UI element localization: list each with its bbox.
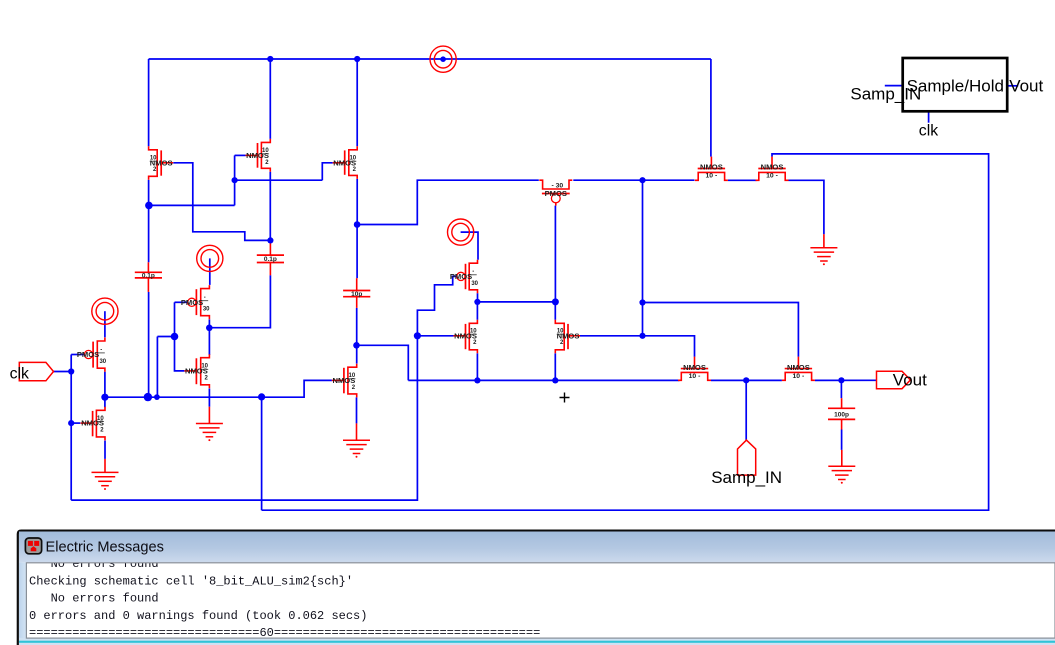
junction dot 5 (270.4,240.4) bbox=[267, 237, 273, 243]
wire M8 drain bbox=[476, 302, 478, 320]
svg-text:10: 10 bbox=[349, 373, 356, 379]
transistor P1H PMOS 30 bbox=[539, 180, 572, 205]
wire clkb vertical bbox=[261, 397, 263, 510]
wire SH out stub bbox=[1007, 85, 1018, 87]
power symbol VDD3 bbox=[448, 219, 474, 245]
transistor M1L NMOS 10/2 (inverter1 pull-down) bbox=[81, 407, 105, 441]
wire M3 source down bbox=[356, 179, 358, 225]
svg-text:30: 30 bbox=[203, 307, 210, 313]
junction dot 3 (148.9,205.4) bbox=[145, 202, 153, 210]
svg-text:30: 30 bbox=[99, 359, 106, 365]
wire M6 source bbox=[356, 397, 358, 423]
wire VDD rail drop to M4 gate bbox=[710, 59, 712, 157]
junction dot 14 (209.3,327.8) bbox=[206, 325, 213, 332]
wire M5 gate loop right bbox=[262, 154, 989, 510]
wire node E right bbox=[357, 345, 409, 380]
cursor crosshair bbox=[560, 393, 570, 403]
ground under C4 bbox=[828, 450, 855, 484]
wire Samp_IN drop bbox=[745, 380, 747, 440]
wire M9 source bbox=[554, 353, 556, 380]
svg-text:10 -: 10 - bbox=[793, 373, 805, 380]
capacitor C1 0.1p bbox=[135, 262, 162, 292]
junction dot 6 (357.1,224.5) bbox=[354, 221, 361, 228]
input pin clk bbox=[19, 362, 53, 380]
transistor M7 NMOS 10/2 (inverter2 pull-down) bbox=[184, 354, 209, 388]
junction dot 9 (104.9,397.2) bbox=[101, 394, 108, 401]
wire M1 gate bbox=[173, 163, 270, 241]
svg-text:NMOS: NMOS bbox=[787, 363, 810, 372]
svg-text:Vout: Vout bbox=[1009, 76, 1043, 95]
junction dot 1 (270.3,59) bbox=[267, 56, 273, 62]
svg-text:NMOS: NMOS bbox=[700, 163, 723, 172]
junction dot 2 (357.2,59) bbox=[354, 56, 360, 62]
wire to M3 gate bbox=[322, 163, 332, 180]
svg-text:-: - bbox=[472, 269, 474, 275]
capacitor C4 100p bbox=[828, 398, 855, 429]
svg-text:10: 10 bbox=[557, 329, 564, 335]
svg-text:Electric Messages: Electric Messages bbox=[46, 540, 164, 556]
svg-text:100p: 100p bbox=[834, 411, 849, 418]
wire VDD rail bbox=[149, 58, 711, 60]
junction dot 17 (477.4,301.9) bbox=[474, 299, 480, 305]
svg-text:10p: 10p bbox=[351, 291, 362, 298]
junction dot 24 (746.2,380.35) bbox=[743, 377, 749, 383]
svg-text:clk: clk bbox=[919, 122, 938, 139]
junction dot 10 (147.9,397.1) bbox=[144, 393, 152, 401]
wire C4 bottom bbox=[841, 430, 843, 450]
wire M5 to ground bbox=[789, 180, 824, 234]
svg-text:PMOS: PMOS bbox=[181, 298, 203, 307]
power symbol VDD1 bbox=[92, 298, 118, 324]
svg-text:10: 10 bbox=[201, 364, 208, 370]
wire M2 source down bbox=[269, 172, 271, 241]
junction dot 19 (642.5,180.2) bbox=[639, 177, 645, 183]
junction dot 7 (71.2,371.5) bbox=[68, 368, 74, 374]
transistor M10 NMOS 10 bbox=[678, 357, 711, 381]
svg-text:10: 10 bbox=[150, 156, 157, 162]
wire P2 drain bbox=[477, 293, 479, 302]
transistor P3 PMOS 30 (inverter2 pull-up) bbox=[181, 285, 210, 319]
junction dot 13 (174.5,336.5) bbox=[171, 333, 179, 341]
wire SH clk stub bbox=[928, 111, 930, 122]
wire node A right bbox=[149, 204, 235, 206]
wire P3 drain bbox=[208, 319, 210, 355]
wire P2 gate stair bbox=[417, 276, 456, 335]
svg-text:PMOS: PMOS bbox=[545, 189, 567, 198]
wire SH in stub bbox=[885, 85, 903, 87]
svg-text:0.1p: 0.1p bbox=[264, 256, 277, 263]
wire VDD to M2 drain bbox=[269, 59, 271, 139]
transistor P2 PMOS 30 (pass gate) bbox=[450, 260, 479, 294]
junction dot 8 (71.2,423.1) bbox=[68, 420, 74, 426]
ground under M6 bbox=[343, 423, 370, 457]
power symbol VDD on rail bbox=[430, 46, 456, 72]
wire node G vertical bbox=[642, 180, 644, 336]
wire clk to M8 gate bbox=[417, 335, 453, 337]
junction dot 22 (477.4,380.4) bbox=[474, 377, 480, 383]
wire M8 source bbox=[476, 353, 478, 380]
junction dot 18 (555.4,301.9) bbox=[552, 298, 559, 305]
junction dot 16 (417.4,335.8) bbox=[414, 332, 421, 339]
svg-text:Vout: Vout bbox=[893, 371, 927, 390]
svg-text:Checking schematic cell '8_bit: Checking schematic cell '8_bit_ALU_sim2{… bbox=[29, 574, 353, 588]
wire M1 source down bbox=[148, 180, 150, 206]
junction dot 20 (642.5,302.5) bbox=[639, 299, 645, 305]
svg-text:10: 10 bbox=[349, 156, 356, 162]
svg-text:10 -: 10 - bbox=[766, 173, 778, 180]
transistor P2L PMOS 30 (inverter1 pull-up) bbox=[77, 338, 107, 372]
svg-text:No errors found: No errors found bbox=[29, 592, 159, 606]
svg-text:PMOS: PMOS bbox=[77, 350, 99, 359]
junction dot 11 (156.9,397.1) bbox=[154, 394, 160, 400]
wire P1H drain to M4 bbox=[573, 179, 694, 181]
wire M7 source to gnd bbox=[208, 389, 210, 407]
svg-text:10: 10 bbox=[262, 148, 269, 154]
junction dot 12 (261.6,396.9) bbox=[258, 393, 265, 400]
transistor M2 NMOS 10/2 bbox=[246, 139, 271, 172]
wire P3 gate down bbox=[174, 302, 176, 336]
wire C2 bottom bbox=[209, 275, 270, 327]
wire to M1L gate bbox=[71, 422, 80, 424]
svg-text:10: 10 bbox=[97, 416, 104, 422]
Electric application icon bbox=[25, 538, 41, 554]
svg-text:Samp_IN: Samp_IN bbox=[711, 468, 782, 487]
wire mid row bbox=[408, 379, 679, 381]
svg-text:10: 10 bbox=[470, 329, 477, 335]
transistor M4 NMOS 10 bbox=[695, 157, 728, 181]
wire M10-M11 link bbox=[711, 379, 782, 381]
wire node B right bbox=[235, 179, 323, 181]
wire C4 top bbox=[840, 380, 842, 398]
wire M1L source bbox=[104, 441, 106, 459]
ground right of M5 bbox=[810, 234, 837, 265]
transistor M8 NMOS 10/2 bbox=[454, 320, 478, 354]
wire inv1 mid bbox=[104, 372, 106, 408]
wire to M2 gate bbox=[235, 154, 246, 156]
junction dot 4 (234.6,180.2) bbox=[232, 177, 238, 183]
svg-text:PMOS: PMOS bbox=[450, 272, 472, 281]
capacitor C2 0.1p bbox=[257, 243, 284, 276]
svg-text:30: 30 bbox=[471, 281, 478, 287]
wire VDD to M3 drain bbox=[356, 59, 358, 146]
wire node A to C1 bbox=[148, 205, 150, 262]
wire M9 drain bbox=[554, 302, 556, 320]
output pin Vout bbox=[877, 371, 911, 389]
wire VDD3 stub bbox=[461, 232, 478, 260]
input pin Samp_IN bbox=[738, 440, 756, 475]
wire M9 gate right bbox=[580, 335, 643, 337]
wire C3 top bbox=[356, 225, 358, 279]
wire node D drop bbox=[156, 337, 158, 398]
wire inv1 out run bbox=[105, 380, 332, 397]
window bottom cyan edge bbox=[19, 641, 1055, 643]
wire to P2L bubble bbox=[71, 354, 85, 356]
transistor M5 NMOS 10 bbox=[756, 157, 789, 181]
wire C1 bottom bbox=[148, 292, 150, 397]
wire node A up bbox=[234, 155, 236, 205]
svg-text:0 errors and 0 warnings found: 0 errors and 0 warnings found (took 0.06… bbox=[29, 609, 367, 623]
svg-text:clk: clk bbox=[10, 366, 29, 383]
wire node D left bbox=[157, 337, 184, 371]
svg-text:10 -: 10 - bbox=[689, 373, 701, 380]
wire clk bottom run bbox=[71, 336, 417, 500]
transistor M11 NMOS 10 bbox=[782, 357, 815, 381]
power symbol VDD2 bbox=[197, 245, 223, 271]
instance box Sample/Hold bbox=[903, 58, 1008, 111]
window frame strip bottom bbox=[19, 638, 1055, 645]
wire node C right up bbox=[357, 180, 539, 224]
transistor M6 NMOS 10/2 bbox=[332, 364, 357, 398]
svg-text:-: - bbox=[204, 295, 206, 301]
wire node F bbox=[478, 301, 556, 303]
svg-text:-: - bbox=[100, 347, 102, 353]
wire VDD1 stub bbox=[104, 311, 106, 337]
capacitor C3 10p bbox=[343, 278, 370, 308]
wire to M10 gate bbox=[643, 336, 695, 357]
wire clk stub bbox=[54, 371, 72, 373]
wire M4-M5 link bbox=[728, 179, 757, 181]
wire VDD to M1 drain bbox=[148, 59, 150, 146]
messages window title bar gradient bbox=[19, 532, 1055, 563]
wire M11 to Vout bbox=[815, 379, 877, 381]
svg-text:NMOS: NMOS bbox=[683, 363, 706, 372]
transistor M9 NMOS 10/2 bbox=[555, 320, 580, 354]
wire clk vertical bbox=[70, 355, 72, 501]
svg-text:0.1p: 0.1p bbox=[142, 273, 155, 280]
wire C3 bottom bbox=[356, 308, 358, 345]
wire node H right bbox=[643, 303, 799, 357]
svg-text:10 -: 10 - bbox=[706, 173, 718, 180]
junction dot 21 (642.5,335.8) bbox=[639, 333, 645, 339]
message text area bbox=[26, 563, 1055, 638]
wire M6 drain bbox=[356, 345, 358, 363]
junction dot 15 (356.5,345.3) bbox=[353, 342, 360, 349]
wire P1H gate drop bbox=[554, 206, 556, 302]
messages window frame bbox=[18, 531, 1055, 645]
wire VDD2 stub bbox=[209, 258, 211, 285]
wire P3 gate bbox=[175, 301, 189, 303]
transistor M3 NMOS 10/2 bbox=[333, 146, 358, 179]
svg-text:Samp_IN: Samp_IN bbox=[850, 85, 921, 104]
svg-text:NMOS: NMOS bbox=[761, 163, 784, 172]
ground under M7 bbox=[196, 407, 223, 441]
window frame strip left bbox=[19, 562, 26, 642]
junction dot 23 (555.3,380.4) bbox=[552, 377, 558, 383]
junction dot 25 (841.4,380.3) bbox=[838, 377, 844, 383]
transistor M1 NMOS 10/2 bbox=[149, 146, 174, 180]
ground under inverter1 bbox=[92, 459, 119, 490]
